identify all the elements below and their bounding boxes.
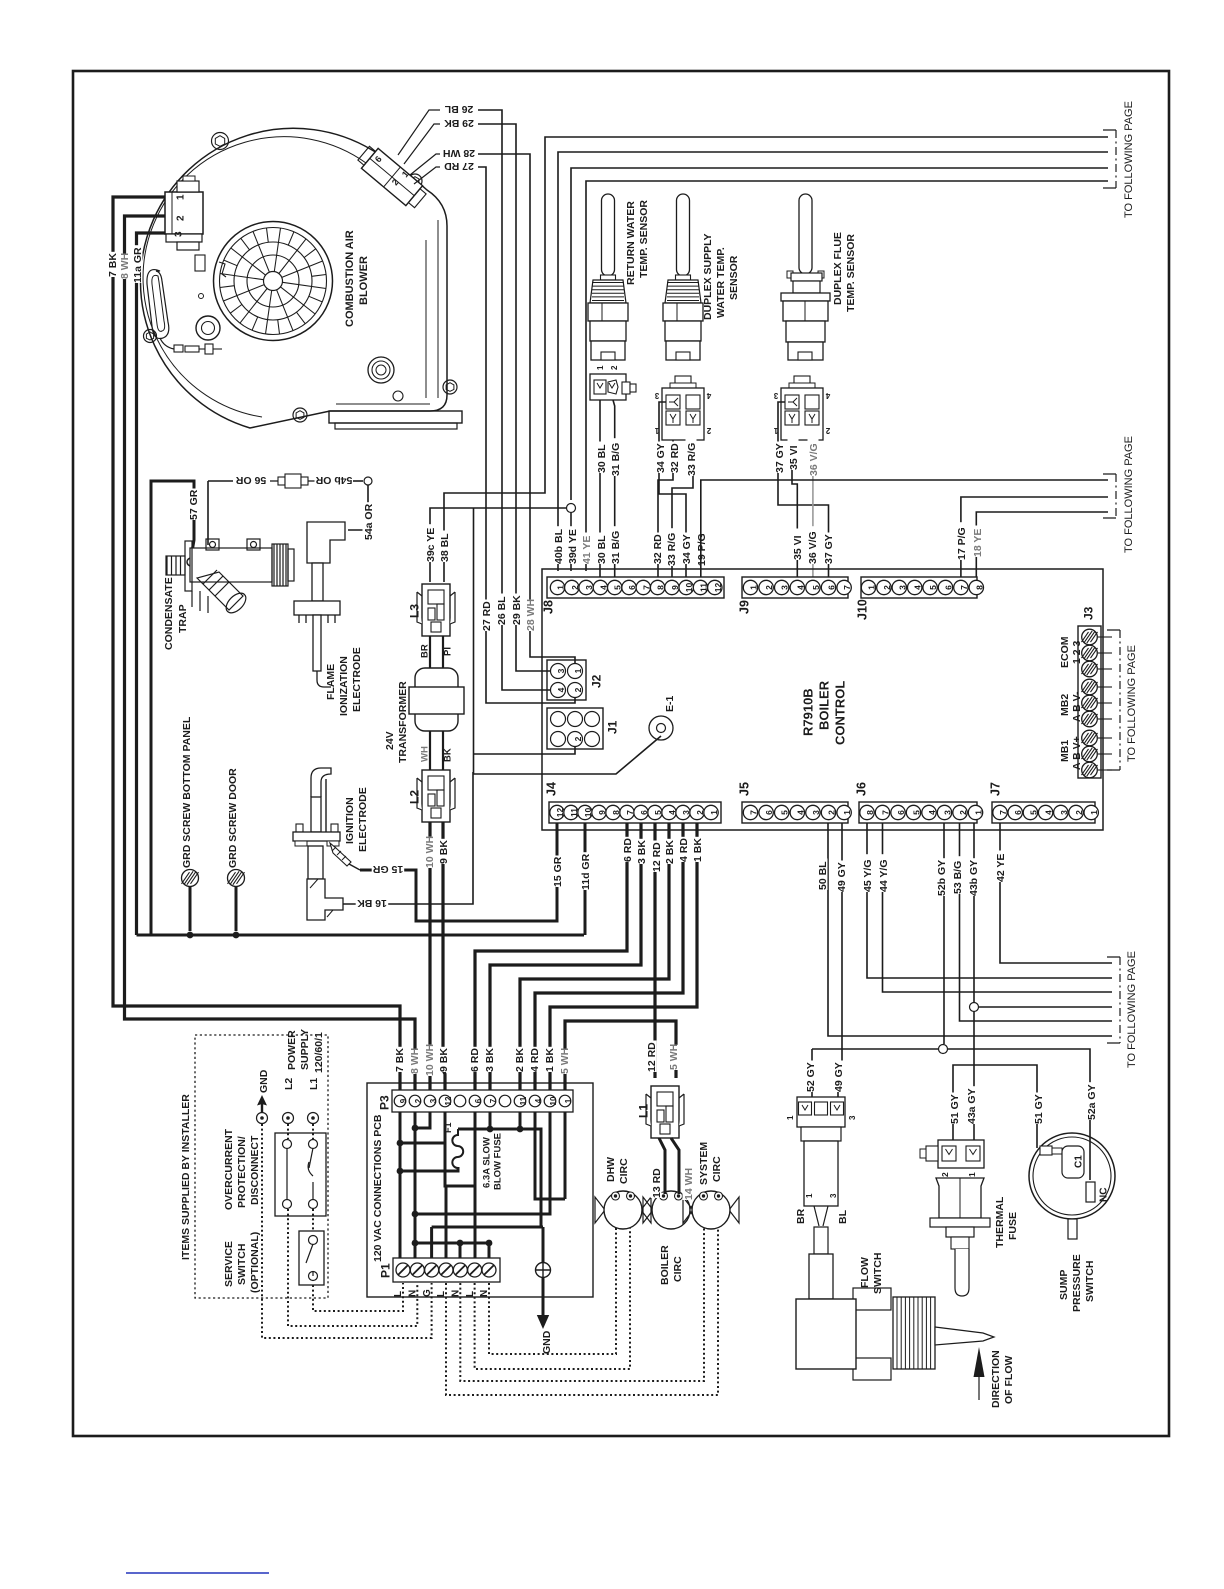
label 49 GY [836,861,847,893]
svg-text:4 RD: 4 RD [678,838,690,862]
svg-text:17 P/G: 17 P/G [956,527,968,560]
page frame border [73,71,1169,1436]
svg-text:GND: GND [258,1069,270,1093]
svg-text:9: 9 [597,810,607,815]
wire 8 WH from blower pin 2 [125,216,416,1090]
svg-text:7: 7 [959,585,969,590]
blower ground lug chain [174,345,183,352]
svg-text:39d YE: 39d YE [567,529,579,564]
svg-text:32 RD: 32 RD [652,534,664,564]
svg-text:FUSE: FUSE [1007,1212,1019,1240]
label 13 RD [651,1167,662,1199]
label 51 GY (fuse) [949,1093,960,1125]
label 57 GR [188,489,199,521]
svg-text:7: 7 [489,1098,498,1103]
svg-text:2: 2 [610,365,619,370]
J4 drop labels lower [469,1047,480,1072]
svg-text:7: 7 [749,810,759,815]
direction of flow arrow [978,1368,980,1400]
wire 11a GR from blower pin 3 [137,233,166,935]
svg-text:P3: P3 [377,1095,391,1110]
svg-text:PRESSURE: PRESSURE [1071,1254,1083,1312]
wire 17 P/G to following page [961,497,1108,583]
svg-text:L2: L2 [407,790,421,804]
svg-text:34 GY: 34 GY [681,534,693,564]
wire 14 WH L1 to boiler pump [671,1138,679,1194]
svg-text:29 BK: 29 BK [511,595,523,625]
svg-text:CONTROL: CONTROL [833,681,848,745]
ground bus wire [137,934,585,937]
svg-text:45 Y/G: 45 Y/G [862,860,874,893]
gnd arrow below PCB [542,1277,545,1316]
svg-text:15 GR: 15 GR [552,856,564,887]
svg-text:3: 3 [174,231,185,237]
electrode terminal E-1 [649,716,673,740]
ignition electrode [293,768,343,920]
svg-text:GRD SCREW BOTTOM PANEL: GRD SCREW BOTTOM PANEL [181,716,193,868]
svg-text:4: 4 [913,585,923,590]
svg-text:43b GY: 43b GY [968,860,980,896]
svg-text:MB2: MB2 [1059,694,1071,716]
wire 5 WH from L1 to P3 pin 1 [565,1021,676,1090]
svg-text:6: 6 [639,810,649,815]
svg-text:1 BK: 1 BK [692,838,704,862]
label 32 RD upper [669,442,680,474]
svg-text:40b BL: 40b BL [553,528,565,564]
label 36 V/G lower [807,526,818,564]
svg-text:R7910B: R7910B [801,688,816,736]
svg-text:2: 2 [940,1172,950,1177]
wire J1 pin 2 / E-1 [474,508,662,774]
svg-text:5 WH: 5 WH [668,1044,680,1070]
svg-text:35 VI: 35 VI [792,535,804,560]
svg-text:1: 1 [573,668,583,673]
label 38 BL [439,531,450,563]
supply sensor 4-pin plug [662,376,704,440]
svg-text:1: 1 [176,194,187,200]
label 18 YE [972,526,983,558]
terminal strip J3 (MB1 MB2 ECOM) [1078,626,1101,778]
svg-text:11d GR: 11d GR [580,853,592,890]
label 28 WH [443,149,476,160]
svg-text:SUMP: SUMP [1058,1270,1070,1300]
svg-text:J6: J6 [854,782,868,796]
svg-text:50 BL: 50 BL [817,861,829,890]
svg-text:BR: BR [419,644,430,658]
label 33 R/G lower [666,528,677,566]
wire 32 RD supply sensor to J8 pin 8 [658,440,673,583]
blower motor hub [196,316,220,340]
svg-text:3: 3 [773,391,778,400]
svg-text:CIRC: CIRC [711,1156,723,1182]
label 49 GY flow [833,1061,844,1093]
bracket to following page (top) [1103,130,1116,188]
svg-text:DHW: DHW [605,1157,617,1182]
svg-text:TEMP. SENSOR: TEMP. SENSOR [845,234,857,312]
label 19 P/G lower [696,528,707,566]
svg-text:NC: NC [1099,1188,1110,1202]
svg-text:12: 12 [713,583,723,593]
wire 57 GR to condensate trap and ground bus [151,481,194,935]
J4 drop labels upper [622,837,633,862]
svg-text:4: 4 [1044,810,1054,815]
svg-text:6: 6 [764,810,774,815]
svg-text:52b GY: 52b GY [936,860,948,896]
blower left connector (pins 1 2 3) [165,176,203,250]
label 27 RD [443,162,476,173]
label 16 BK [356,899,389,910]
wire 51 GY thermal fuse to sump switch [953,1065,1037,1148]
R7910B boiler control box [542,569,1103,830]
connector J1 [547,708,603,749]
label 11d GR [580,852,591,890]
label 37 GY upper [774,442,785,474]
svg-text:TO FOLLOWING PAGE: TO FOLLOWING PAGE [1123,436,1135,553]
svg-text:3: 3 [829,1193,838,1198]
svg-text:J2: J2 [589,674,603,688]
condensate trap drawing [166,539,294,616]
wire 26 BL down to J2 [478,110,502,640]
svg-text:27 RD: 27 RD [444,160,474,172]
svg-text:52a GY: 52a GY [1086,1084,1098,1120]
svg-text:32 RD: 32 RD [669,443,681,473]
overcurrent switch poles [283,1140,292,1149]
svg-text:2: 2 [570,585,580,590]
wire 3 BK [490,823,641,1090]
wire 38 BL to following page [444,137,1108,582]
svg-text:ELECTRODE: ELECTRODE [357,787,369,852]
svg-text:7: 7 [842,585,852,590]
svg-text:38 BL: 38 BL [439,533,451,562]
label 53 B/G [952,856,963,894]
junction node 39d [567,504,576,513]
svg-text:L2: L2 [283,1078,295,1090]
svg-text:3: 3 [654,391,659,400]
wire 41 YE to following page [586,181,1108,571]
svg-text:11: 11 [519,1096,528,1105]
svg-text:SWITCH: SWITCH [236,1244,248,1285]
wire 1 BK [550,823,697,1090]
svg-text:13 RD: 13 RD [651,1168,663,1198]
label 29 BK lower [511,594,522,626]
svg-text:14 WH: 14 WH [683,1168,695,1200]
svg-text:WATER TEMP.: WATER TEMP. [715,247,727,318]
svg-text:8: 8 [611,810,621,815]
svg-text:1: 1 [967,1172,977,1177]
svg-text:CONDENSATE: CONDENSATE [163,577,175,650]
svg-text:53 B/G: 53 B/G [952,861,964,894]
label 26 BL lower [496,594,507,626]
svg-text:L1: L1 [636,1104,650,1118]
svg-text:6: 6 [944,585,954,590]
svg-text:A B V-: A B V- [1071,691,1083,722]
wire 19 P/G to following page [701,480,1108,583]
svg-text:33 R/G: 33 R/G [686,443,698,476]
svg-text:18 YE: 18 YE [972,529,984,557]
duplex supply water temp sensor [663,194,703,360]
svg-text:3: 3 [584,585,594,590]
svg-text:F1: F1 [443,1122,453,1133]
label 52a GY [1086,1082,1097,1120]
label 43b GY [968,858,979,896]
pump BOILER CIRC [643,1191,699,1229]
svg-text:J10: J10 [855,599,869,620]
svg-text:2: 2 [825,426,830,435]
svg-text:1: 1 [596,365,605,370]
svg-text:1: 1 [749,585,759,590]
items supplied by installer dashed box [195,1035,328,1298]
svg-text:MB1: MB1 [1059,740,1071,762]
connector L1 [646,1086,684,1138]
svg-text:30 BL: 30 BL [596,535,608,564]
svg-text:5 WH: 5 WH [559,1048,571,1074]
wire 12 RD J4 pin 5 to L1 [653,823,656,1078]
terminal strip P3 [392,1090,573,1112]
label 34 GY upper [655,442,666,474]
wire 54a OR to flame electrode [348,485,368,530]
label 15 GR at J4 [552,856,563,888]
svg-text:9 BK: 9 BK [438,1048,450,1072]
wire 11d GR J4 pin 10 to ground bus [584,823,587,935]
svg-text:1 2 3: 1 2 3 [1071,640,1083,664]
wire 34 GY supply sensor to J8 pin 10 [659,402,686,583]
svg-text:3: 3 [681,810,691,815]
svg-text:2: 2 [573,736,583,741]
svg-text:BK: BK [442,748,453,762]
svg-text:31 B/G: 31 B/G [610,443,622,476]
label 30 BL lower [596,533,607,565]
svg-text:2: 2 [706,426,711,435]
svg-text:DUPLEX SUPPLY: DUPLEX SUPPLY [702,233,714,320]
svg-text:1 BK: 1 BK [544,1048,556,1072]
svg-text:5: 5 [780,810,790,815]
svg-text:J5: J5 [737,782,751,796]
svg-text:5: 5 [1028,810,1038,815]
pump SYSTEM CIRC [683,1191,739,1229]
svg-text:6 RD: 6 RD [469,1048,481,1072]
wire 52b GY to junction [943,823,945,1044]
svg-text:BL: BL [837,1209,849,1224]
label 14 WH [683,1169,694,1201]
flow switch connector [797,1097,845,1127]
wire 27 RD down to J2 [478,167,486,640]
svg-text:6.3A SLOW: 6.3A SLOW [481,1137,492,1188]
svg-text:COMBUSTION AIR: COMBUSTION AIR [344,230,356,327]
blower fan grille [214,222,333,341]
svg-text:L1: L1 [308,1078,320,1090]
svg-text:9: 9 [399,1098,408,1103]
inline connector 54/56 [270,474,315,488]
blower wire loop clip [147,270,169,339]
wire 53 B/G to following page [960,823,1113,1021]
svg-text:7 BK: 7 BK [107,253,119,277]
label 7 BK [107,252,118,277]
svg-text:DIRECTION: DIRECTION [990,1350,1002,1408]
svg-text:49 GY: 49 GY [836,862,848,892]
blower small holes [393,391,403,401]
svg-text:4: 4 [556,687,566,692]
wire 52 GY / 52a GY horizontal [812,1048,938,1050]
svg-text:2: 2 [882,585,892,590]
thermal fuse body [930,1178,990,1296]
ignition electrode spark lead [330,843,360,870]
label 35 VI lower [792,529,803,561]
svg-text:1: 1 [867,585,877,590]
svg-text:57 GR: 57 GR [188,489,200,520]
blower mounting bolts [212,133,229,150]
svg-text:7 BK: 7 BK [394,1048,406,1072]
blower top connector (pins 6..1) [355,143,428,210]
svg-text:4: 4 [598,585,608,590]
label 52b GY [936,858,947,896]
wire 56 OR [207,481,209,545]
wire 49 GY to flow switch [838,823,842,1101]
svg-text:39c YE: 39c YE [425,528,437,562]
connector J2 [547,660,586,700]
svg-text:28 WH: 28 WH [525,599,537,631]
svg-text:5: 5 [912,810,922,815]
label 33 R/G upper [686,438,697,476]
wire 29 BK down to J2 [478,124,516,640]
wire 42 YE to following page [1000,823,1112,963]
svg-text:L3: L3 [407,604,421,618]
connector J9 [737,577,852,614]
label 35 VI upper [788,439,799,471]
svg-text:8 WH: 8 WH [409,1048,421,1074]
connector J10 [855,577,984,620]
svg-text:SENSOR: SENSOR [728,255,740,300]
dotted wire L2 to P1.N [287,1124,289,1139]
label 44 Y/G [878,854,889,892]
dotted wire GND to P1.G [262,1124,432,1338]
svg-text:54b OR: 54b OR [315,474,352,486]
svg-text:16 BK: 16 BK [357,897,387,909]
svg-text:4: 4 [667,810,677,815]
svg-text:11: 11 [569,808,579,817]
wire 16 BK from ignition electrode cap to E-1 net [343,772,473,904]
wires transformer to L2 (WH BK) [430,731,443,770]
svg-text:J9: J9 [737,600,751,614]
svg-text:DUPLEX FLUE: DUPLEX FLUE [832,232,844,305]
svg-text:8 WH: 8 WH [119,253,131,279]
svg-text:POWER: POWER [286,1030,298,1070]
label 50 BL [817,859,828,891]
wire 15 GR from ignition electrode to J4 pin 12 [360,823,557,921]
svg-text:10 WH: 10 WH [424,1044,436,1076]
svg-text:43a GY: 43a GY [966,1088,978,1124]
svg-text:4: 4 [927,810,937,815]
wire 37 GY flue sensor to J9 pin 6 [778,402,829,583]
wire 2 BK [520,823,669,1090]
svg-text:E-1: E-1 [664,696,676,713]
bracket to following page (second) [1103,474,1116,518]
wire 26 BL into J2 pin 4 [502,640,550,690]
svg-text:1: 1 [786,1115,795,1120]
svg-text:12 RD: 12 RD [646,1042,658,1072]
svg-text:1: 1 [842,810,852,815]
wire 18 YE to following page [976,512,1108,583]
svg-text:52 GY: 52 GY [805,1062,817,1092]
label 45 Y/G [862,854,873,892]
svg-text:3: 3 [556,668,566,673]
wire 9 BK from L2 to P3 pin 12 [443,822,445,1090]
svg-text:2 BK: 2 BK [514,1048,526,1072]
wire 28 WH into J2 pin 1 [530,640,575,664]
wire 39d YE to following page [571,168,1108,500]
blower outlet flange [329,411,462,423]
label 37 GY lower [823,533,834,565]
svg-text:49 GY: 49 GY [833,1062,845,1092]
svg-text:FLOW: FLOW [859,1257,871,1288]
label 36 V/G upper [808,438,819,476]
svg-text:A B V+: A B V+ [1071,736,1083,770]
svg-text:C1: C1 [1074,1155,1085,1168]
wire 4 RD [535,823,683,1090]
svg-text:9 BK: 9 BK [438,840,450,864]
svg-text:PI: PI [442,647,453,656]
svg-text:44 Y/G: 44 Y/G [878,860,890,893]
wire 40b BL to following page [558,152,1108,571]
svg-text:5: 5 [613,585,623,590]
label 54b OR [315,476,354,487]
svg-text:TO FOLLOWING PAGE: TO FOLLOWING PAGE [1123,101,1135,218]
svg-text:2: 2 [764,585,774,590]
chassis ground stud [542,1227,545,1262]
svg-text:J8: J8 [541,600,555,614]
grd screw door [228,870,245,887]
svg-text:2: 2 [573,687,583,692]
label 15 GR [372,865,405,876]
svg-text:2: 2 [695,810,705,815]
label 51 GY (sump) [1033,1093,1044,1125]
svg-text:1: 1 [974,810,984,815]
label 43a GY [966,1086,977,1124]
svg-text:6: 6 [827,585,837,590]
svg-text:6: 6 [1013,810,1023,815]
label 28 WH lower [525,600,536,632]
fuse F1 [452,1129,463,1171]
svg-text:30 BL: 30 BL [596,444,608,473]
svg-text:PROTECTION/: PROTECTION/ [236,1136,248,1208]
svg-text:2 BK: 2 BK [664,840,676,864]
bracket to following page (bottom) [1107,957,1120,1043]
wire 35 VI flue sensor to J9 pin 4 [792,440,797,583]
svg-text:G: G [422,1289,433,1297]
svg-text:26 BL: 26 BL [496,596,508,625]
svg-text:2: 2 [958,810,968,815]
svg-text:24V: 24V [384,731,396,750]
leads from blower top connector to labels [398,110,440,184]
svg-text:SERVICE: SERVICE [223,1241,235,1287]
svg-text:9: 9 [670,585,680,590]
svg-text:4 RD: 4 RD [529,1048,541,1072]
svg-text:THERMAL: THERMAL [994,1196,1006,1248]
wire 28 WH down to J2 [478,154,530,640]
svg-text:WH: WH [419,746,430,762]
svg-text:3: 3 [848,1115,857,1120]
label 31 B/G lower [610,526,621,564]
svg-text:3: 3 [429,1098,438,1103]
label 9 BK upper [438,839,449,864]
connector J5 [737,782,852,823]
svg-text:41 YE: 41 YE [581,536,593,564]
svg-text:6: 6 [474,1098,483,1103]
flow switch body [796,1127,994,1380]
svg-text:51 GY: 51 GY [1033,1094,1045,1124]
svg-text:3: 3 [897,585,907,590]
terminal strip P1 [393,1258,500,1282]
label 11a GR [132,245,143,283]
